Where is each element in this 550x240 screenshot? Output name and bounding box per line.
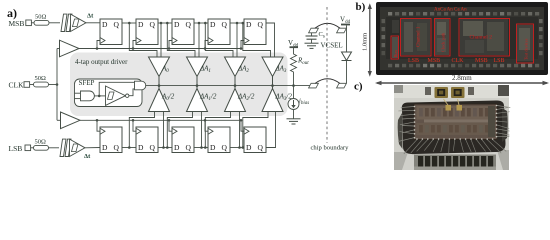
amplifier dA2 (down triangle) — [225, 57, 250, 86]
flip-flop FF5 (top MSB shift register, D Q) — [244, 19, 266, 45]
wire MSB pad to R — [31, 22, 34, 24]
svg-text:chip boundary: chip boundary — [311, 144, 350, 151]
chip boundary (dashed line) — [326, 7, 328, 143]
svg-text:D: D — [102, 143, 108, 152]
svg-text:Channel 1: Channel 1 — [417, 26, 422, 47]
svg-text:Clock path: Clock path — [441, 32, 446, 52]
AND gate U-SFEP1 — [75, 91, 95, 101]
delayed tap wire (jog, bottom) into amp column 1 — [167, 112, 192, 148]
bond wire (output to VCSEL cathode) — [315, 79, 340, 84]
wire Q to next D (bottom row) — [158, 147, 172, 149]
bond wires radiating from die — [398, 106, 510, 155]
chip assembly (dark epoxy region) — [402, 100, 506, 154]
clock stub to FF at x=136 (top) — [133, 41, 136, 49]
tap wire from bottom FF Q up to amp column 1 — [201, 112, 203, 148]
wire AND1 output — [94, 95, 105, 97]
wire VCSEL cathode — [346, 61, 348, 84]
svg-text:D: D — [174, 20, 180, 29]
delayed tap wire (jog, bottom) into amp column 0 — [129, 112, 154, 148]
svg-text:LSB: LSB — [9, 144, 23, 153]
chip die (brown) — [414, 104, 497, 140]
wire R to clock node — [49, 84, 58, 86]
summing output bus — [145, 85, 310, 87]
red annotation box clock path — [435, 19, 451, 57]
VCSEL laser diode — [321, 42, 352, 61]
svg-text:Q: Q — [186, 20, 192, 29]
SFEP sub-block (white rounded box) — [75, 79, 143, 107]
wire Q to next D (bottom row) — [230, 147, 244, 149]
amplifier dA3/2 (up triangle) — [262, 86, 292, 112]
amplifier dA1/2 (up triangle) — [187, 86, 217, 112]
wire Q to next D (bottom row) — [122, 147, 136, 149]
delayed tap wire (jog, bottom) into amp column 3 — [243, 112, 268, 148]
flip-flop FF9 (bottom LSB shift register, D Q) — [208, 127, 230, 153]
wire C_s to ground — [311, 39, 313, 43]
resistor R-MSB 50&#937; termination — [34, 13, 49, 25]
svg-text:50Ω: 50Ω — [35, 13, 47, 20]
wire Q to next D (bottom row) — [194, 147, 208, 149]
wire FF5 Q to amp dA3 input — [266, 23, 275, 57]
resistor R-LSB 50&#937; termination — [34, 138, 49, 150]
input pad MSB (square pad symbol) — [26, 20, 32, 26]
svg-text:Q: Q — [222, 143, 228, 152]
bus junction at amp column — [271, 84, 274, 87]
svg-text:Q: Q — [114, 143, 120, 152]
bus junction at amp column — [234, 84, 237, 87]
flip-flop FF7 (bottom LSB shift register, D Q) — [136, 127, 158, 153]
delayed tap wire (jog, bottom) into amp column 2 — [205, 112, 230, 148]
capacitor C_s — [306, 31, 325, 40]
svg-text:D: D — [246, 143, 252, 152]
bus junction at amp column — [196, 84, 199, 87]
clock stub to FF at x=172 (bottom) — [169, 120, 172, 131]
svg-text:Q: Q — [150, 143, 156, 152]
svg-text:VCSEL: VCSEL — [321, 42, 343, 50]
clock buffer B2 (bottom) — [61, 112, 81, 129]
resistor R-CLK 50&#937; termination — [34, 75, 49, 87]
red annotation box Channel 2 — [459, 19, 510, 57]
tap wire from bottom FF Q up to amp column 0 — [163, 112, 165, 148]
wire-bonded chip photograph (panel c) — [394, 85, 510, 170]
wire VCSEL anode to Vdd — [346, 26, 348, 53]
gold RF pads (top of photo) — [435, 87, 449, 98]
bond pad on-chip supply pad — [309, 28, 319, 33]
clock line (top row) — [79, 48, 242, 50]
clock stub to FF at x=244 (top) — [241, 41, 244, 49]
bond pad output pad (on-chip) — [309, 83, 319, 88]
wire pad to C_s — [311, 33, 313, 36]
svg-text:D: D — [174, 143, 180, 152]
amplifier dA3 (down triangle) — [262, 57, 287, 86]
bond pad VCSEL anode pad — [337, 28, 347, 33]
tap wire from FF3 Q down to amp column 1 — [198, 23, 200, 57]
bus node at R_out / i_bias column — [292, 84, 295, 87]
chip micrograph photo (panel b) — [376, 2, 548, 75]
tap wire from FF4 Q down to amp column 2 — [236, 23, 238, 57]
svg-text:Bias: Bias — [393, 50, 398, 58]
delayed tap wire (jog) into amp column 0 — [129, 23, 157, 57]
amplifier dA2/2 (up triangle) — [225, 86, 255, 112]
wire delay to FF6 — [85, 147, 100, 149]
svg-text:50Ω: 50Ω — [35, 75, 47, 82]
amplifier A0/2 (up triangle) — [149, 86, 175, 112]
dimension arrow 2.8mm (horizontal) — [375, 81, 549, 86]
flip-flop FF2 (top MSB shift register, D Q) — [136, 19, 158, 45]
svg-text:Δt: Δt — [84, 153, 91, 160]
delayed tap wire (jog) into amp column 2 — [205, 23, 233, 57]
svg-text:a): a) — [7, 6, 17, 20]
red annotation box Channel 1 — [401, 19, 432, 57]
current source i_bias — [288, 98, 309, 110]
svg-text:Q: Q — [258, 143, 264, 152]
flip-flop FF6 (bottom LSB shift register, D Q) — [100, 127, 122, 153]
ground symbol GND C_s — [305, 43, 319, 48]
variable delay element delay-MSB (adjustable-delay symbol) — [61, 13, 94, 32]
clock stub to FF at x=100 (top) — [97, 41, 100, 49]
svg-text:MSB: MSB — [9, 19, 25, 28]
clock vertical bus — [56, 49, 58, 121]
clock stub to FF at x=208 (top) — [205, 41, 208, 49]
svg-text:LSB: LSB — [408, 58, 419, 64]
svg-text:CLK: CLK — [452, 58, 465, 64]
input pad LSB (square pad symbol) — [25, 145, 31, 151]
tap wire from bottom FF Q up to amp column 2 — [239, 112, 241, 148]
svg-text:Q: Q — [186, 143, 192, 152]
svg-text:2.8mm: 2.8mm — [452, 74, 472, 82]
flip-flop FF3 (top MSB shift register, D Q) — [172, 19, 194, 45]
clock line (bottom row) — [80, 119, 242, 121]
clock stub to FF at x=172 (top) — [169, 41, 172, 49]
wire Q to next D (top row) — [158, 22, 172, 24]
stub to top clock buffer — [57, 48, 60, 50]
svg-text:SFEP: SFEP — [79, 79, 95, 87]
svg-text:b): b) — [356, 1, 366, 13]
ball bonds on die edge — [414, 105, 498, 140]
svg-text:4-tap output driver: 4-tap output driver — [75, 58, 128, 66]
svg-text:CLK: CLK — [9, 81, 25, 90]
wire Q to next D (top row) — [194, 22, 208, 24]
variable delay element delay-LSB (adjustable-delay symbol) — [60, 139, 91, 160]
wire i_bias to ground — [293, 110, 295, 119]
bond wire (supply to VCSEL anode) — [315, 23, 340, 28]
svg-text:MSB: MSB — [475, 58, 488, 64]
svg-text:1.0mm: 1.0mm — [362, 33, 369, 51]
leadframe fingers (bottom of photo) — [414, 155, 496, 171]
clock stub to FF at x=100 (bottom) — [97, 120, 100, 131]
svg-text:Δt: Δt — [87, 13, 94, 20]
svg-text:Q: Q — [222, 20, 228, 29]
4-tap output driver block (gray region) — [70, 53, 288, 117]
wire CLK pad to R — [30, 84, 34, 86]
svg-text:c): c) — [354, 81, 363, 93]
delayed tap wire (jog) into amp column 1 — [167, 23, 195, 57]
wire Q to next D (top row) — [122, 22, 136, 24]
flip-flop FF8 (bottom LSB shift register, D Q) — [172, 127, 194, 153]
svg-text:Q: Q — [150, 20, 156, 29]
input pad CLK (square pad symbol) — [24, 82, 30, 88]
svg-text:Test devices: Test devices — [524, 38, 529, 60]
svg-text:LSB: LSB — [494, 58, 505, 64]
wire FF10 Q to amp dA3/2 input — [266, 112, 276, 148]
wire bus to i_bias — [293, 86, 295, 99]
svg-text:D: D — [138, 20, 144, 29]
red annotation box test devices — [517, 24, 534, 63]
wire Q to next D (top row) — [230, 22, 244, 24]
svg-text:MSB: MSB — [428, 58, 441, 64]
ground symbol GND i_bias — [287, 119, 301, 124]
svg-text:D: D — [138, 143, 144, 152]
wire direct path to AND2 upper input — [99, 82, 134, 96]
resistor R_out (zigzag) — [291, 52, 310, 74]
bus junction at amp column — [158, 84, 161, 87]
amplifier dA1 (down triangle) — [187, 57, 211, 86]
bond pad VCSEL cathode pad — [337, 83, 347, 88]
clock stub to FF at x=208 (bottom) — [205, 120, 208, 131]
AND gate U-SFEP2 (output gate) — [135, 81, 146, 90]
skewed inverter (SFEP delay cell with bubble) — [106, 86, 129, 105]
wire delay to FF1 — [86, 22, 100, 24]
svg-text:D: D — [210, 20, 216, 29]
node SFEP fanout — [98, 95, 101, 98]
clock stub to FF at x=136 (bottom) — [133, 120, 136, 131]
stub to bottom clock buffer — [57, 119, 61, 121]
tap wire from FF2 Q down to amp column 0 — [160, 23, 162, 57]
flip-flop FF1 (top MSB shift register, D Q) — [100, 19, 122, 45]
flip-flop FF4 (top MSB shift register, D Q) — [208, 19, 230, 45]
dimension arrow 1.0mm (vertical) — [368, 3, 372, 77]
delayed tap wire (jog) into amp column 3 — [243, 23, 271, 57]
wire LSB pad to R — [31, 147, 34, 149]
red annotation box (bias block) — [391, 36, 399, 59]
svg-text:D: D — [246, 20, 252, 29]
svg-text:50Ω: 50Ω — [35, 138, 47, 145]
svg-text:D: D — [210, 143, 216, 152]
wire R to delay — [49, 147, 60, 149]
svg-text:Q: Q — [114, 20, 120, 29]
clock distribution node — [56, 83, 59, 86]
clock stub to FF at x=244 (bottom) — [241, 120, 244, 131]
svg-text:Channel 2: Channel 2 — [470, 35, 493, 41]
svg-text:AnCa An Ca An: AnCa An Ca An — [434, 8, 467, 13]
wire Vdd to R_out — [293, 47, 295, 52]
wire R to delay — [49, 22, 60, 24]
amplifier A0 (down triangle) — [149, 57, 170, 86]
svg-text:Q: Q — [258, 20, 264, 29]
wire delay cell to AND2 lower input — [129, 89, 135, 96]
wire R_out to bus — [293, 74, 295, 86]
clock buffer B1 (top) — [60, 40, 80, 57]
flip-flop FF10 (bottom LSB shift register, D Q) — [244, 127, 266, 153]
svg-text:D: D — [102, 20, 108, 29]
